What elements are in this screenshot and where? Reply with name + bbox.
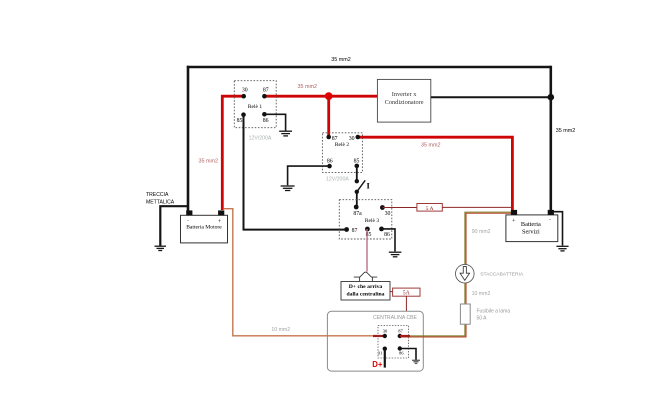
pin 87 (344, 227, 349, 232)
svg-text:85: 85 (354, 159, 360, 165)
wire pin86 to ground (400, 349, 416, 360)
ground under relay1 (279, 131, 292, 136)
wire top black bus 35mm2 (187, 66, 551, 69)
svg-text:86: 86 (263, 118, 269, 124)
svg-text:Condizionatore: Condizionatore (385, 99, 424, 106)
wire relay3 pin86 to ground (382, 229, 396, 252)
wire fuse 5A bottom to centralina (405, 296, 407, 311)
svg-text:Batteria Motore: Batteria Motore (186, 225, 222, 231)
wire relay1 pin86 to ground (264, 114, 285, 130)
svg-text:30: 30 (242, 88, 248, 94)
wire pink relay3 pin85 down to connector (366, 229, 368, 272)
svg-text:35 mm2: 35 mm2 (199, 159, 218, 165)
wire dark red segment into pin30 (373, 335, 385, 337)
box D+ che arriva dalla centralina (341, 282, 390, 301)
wire thick red relay2 pin30 to Batteria Servizi plus (358, 137, 513, 210)
pin 87 (398, 334, 402, 338)
svg-text:dalla centralina: dalla centralina (346, 292, 384, 298)
pin 87 (262, 94, 267, 99)
battery Batteria Motore (181, 210, 228, 243)
svg-text:35 mm2: 35 mm2 (298, 84, 317, 90)
svg-text:86: 86 (384, 232, 390, 238)
svg-text:CENTRALINA CBE: CENTRALINA CBE (373, 315, 417, 321)
svg-text:50 A: 50 A (477, 315, 488, 321)
pin 85 (365, 227, 370, 232)
wire thick red relay1 pin30 to Batteria Motore plus (222, 96, 243, 210)
svg-text:METTALICA: METTALICA (146, 200, 175, 206)
svg-text:5A: 5A (403, 291, 411, 297)
svg-text:87: 87 (263, 88, 269, 94)
pin 30 (241, 94, 246, 99)
relay Relè 1 (234, 81, 276, 128)
svg-text:D+: D+ (372, 360, 383, 369)
svg-text:10 mm2: 10 mm2 (271, 327, 290, 333)
svg-text:90 mm2: 90 mm2 (472, 229, 491, 235)
svg-text:87: 87 (352, 228, 358, 234)
wire relay2 pin86 to ground (288, 166, 330, 185)
wire dark red segment into pin87 (400, 335, 410, 337)
wire olive-brick double from Batteria Servizi plus to staccabatteria (465, 212, 515, 265)
svg-text:35 mm2: 35 mm2 (331, 57, 350, 63)
wire D+ box to fuse 5A bottom (390, 291, 393, 293)
svg-text:STACCABATTERIA: STACCABATTERIA (480, 272, 524, 278)
battery disconnect STACCABATTERIA (456, 264, 475, 283)
switch I between relay2 pin85 and relay3 pin87a (355, 166, 371, 207)
ground under relay2 (281, 186, 295, 191)
svg-text:Servizi: Servizi (522, 229, 540, 236)
pin 86 (379, 227, 384, 232)
svg-text:Relè 3: Relè 3 (365, 218, 379, 224)
pin 30 (383, 334, 387, 338)
wire relay1 pin85 down and right to relay3 pin87 (244, 115, 347, 230)
wire thick red relay1 pin87 to inverter (264, 95, 377, 98)
svg-text:TRECCIA: TRECCIA (146, 192, 169, 198)
wire olive-brick staccabatteria to fuse50A (465, 283, 466, 304)
relay Relè 2 (322, 133, 362, 173)
box Inverter x Condizionatore (377, 79, 430, 122)
wire left black vertical to Batteria Motore minus (187, 66, 190, 211)
wire fuse 5A to red vertical (442, 206, 512, 208)
fuse 5A bottom (393, 288, 420, 297)
fuse Fusibile a lama 50A (460, 304, 470, 324)
svg-text:+: + (512, 217, 516, 224)
svg-text:35 mm2: 35 mm2 (421, 142, 440, 148)
wire right black vertical to Batteria Servizi minus (549, 66, 552, 212)
svg-text:Relè 2: Relè 2 (335, 142, 349, 148)
svg-text:30: 30 (385, 211, 391, 217)
svg-text:Fusibile a lama: Fusibile a lama (477, 308, 511, 314)
svg-text:85: 85 (237, 118, 243, 124)
svg-text:10 mm2: 10 mm2 (472, 291, 491, 297)
svg-text:86: 86 (399, 350, 404, 355)
control unit CENTRALINA CBE (327, 311, 423, 371)
wire treccia metallica branch (160, 206, 188, 246)
svg-text:5 A: 5 A (426, 206, 434, 212)
ground under Batteria Servizi (556, 246, 568, 251)
wire D+ output down (384, 349, 386, 368)
svg-text:12V/200A: 12V/200A (249, 135, 272, 141)
pin 30 (356, 135, 361, 140)
ground under treccia (155, 246, 167, 250)
svg-text:86: 86 (327, 159, 333, 165)
connector brace above D+ box (354, 272, 377, 281)
relay Relè 3 (339, 200, 392, 239)
svg-text:12V/200A: 12V/200A (326, 176, 349, 182)
battery Batteria Servizi (506, 210, 558, 242)
svg-text:D+ che arriva: D+ che arriva (349, 284, 383, 290)
svg-text:87a: 87a (353, 211, 362, 217)
pin 85 (355, 164, 360, 169)
wire inverter right to black bus (431, 96, 551, 98)
svg-text:87: 87 (398, 328, 403, 333)
pin 87a (354, 205, 359, 210)
wire Batteria Servizi minus to ground (552, 212, 563, 246)
pin 85 (241, 112, 246, 117)
ground under relay3 (389, 252, 402, 257)
pin 86 (262, 112, 267, 117)
label Fusibile a lama 50 A (477, 308, 511, 321)
pin 87 (326, 135, 331, 140)
node black junction (548, 94, 555, 101)
wire salmon 10mm2 Batteria Motore plus to centralina pin30 (224, 209, 375, 336)
svg-text:31: 31 (378, 350, 383, 355)
pin 30 (380, 205, 385, 210)
fuse 5A middle (417, 204, 442, 212)
wire thick red junction down to relay2 pin87 (327, 96, 330, 137)
pin 86 (327, 164, 332, 169)
svg-text:Inverter x: Inverter x (392, 91, 418, 98)
wire relay3 pin30 to fuse 5A (382, 207, 417, 209)
node red junction (325, 92, 333, 100)
switch blade (357, 180, 365, 192)
pin 31 (383, 347, 387, 351)
svg-text:Relè 1: Relè 1 (248, 104, 262, 110)
svg-text:35 mm2: 35 mm2 (556, 128, 575, 134)
svg-text:Batteria: Batteria (521, 221, 541, 228)
pin 86 (398, 346, 402, 350)
svg-text:30: 30 (349, 136, 355, 142)
ground inside centralina (412, 360, 420, 363)
wire olive-brick fuse50A down and left to centralina pin87 (401, 324, 466, 337)
svg-text:30: 30 (383, 328, 388, 333)
label TRECCIA METTALICA (146, 192, 175, 206)
